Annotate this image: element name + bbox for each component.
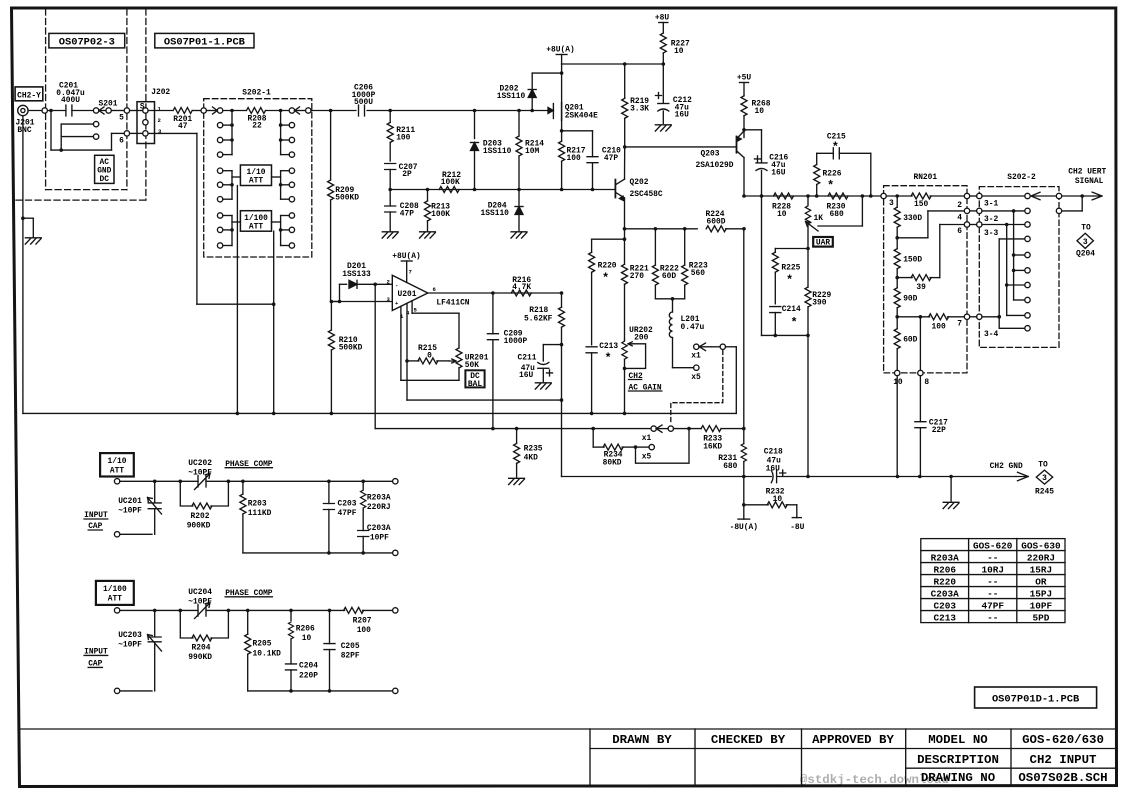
resistor R205 10.1KD	[245, 610, 281, 691]
top wire	[120, 609, 198, 611]
transistor Q203 2SA1029D	[696, 131, 744, 170]
svg-text:390: 390	[812, 299, 826, 308]
svg-text:3: 3	[1083, 238, 1088, 247]
resistor R207 100	[344, 607, 393, 634]
wire common to R233	[674, 428, 702, 430]
svg-text:0.47u: 0.47u	[681, 323, 705, 332]
capacitor C211 47u 16V	[518, 345, 562, 382]
wire R201 to S202-1	[192, 110, 201, 112]
resistor R226	[814, 153, 842, 196]
wire J201 to C201	[28, 110, 66, 112]
svg-text:x1: x1	[691, 352, 701, 361]
ground below C208	[382, 232, 398, 238]
left contacts 3-1 3-2 3-3 3-4	[977, 193, 999, 208]
svg-text:560: 560	[691, 269, 705, 278]
svg-text:R226: R226	[823, 169, 842, 178]
svg-text:C214: C214	[782, 305, 801, 314]
svg-text:--: --	[987, 576, 998, 587]
label box OS07P02-3	[49, 33, 125, 48]
svg-text:--: --	[987, 588, 998, 599]
svg-text:200: 200	[634, 333, 648, 342]
input cap lower terminal	[114, 532, 152, 537]
wire J202 pin3 down	[148, 133, 274, 304]
1/100 ATT box	[96, 581, 134, 605]
op-amp output pin 6	[428, 292, 562, 294]
svg-text:82PF: 82PF	[341, 652, 360, 661]
svg-text:R206: R206	[933, 564, 956, 575]
svg-text:@stdkj-tech.download: @stdkj-tech.download	[800, 773, 949, 787]
svg-text:BNC: BNC	[17, 126, 31, 135]
resistor R202 900KD	[180, 481, 228, 530]
wire to R225	[775, 249, 808, 253]
1/10 ATT box	[100, 453, 134, 476]
svg-text:47PF: 47PF	[981, 600, 1004, 611]
pin 10 wire down	[896, 376, 898, 477]
input terminal	[114, 479, 119, 484]
S201 lower contacts	[61, 121, 99, 150]
svg-text:R220: R220	[598, 261, 617, 270]
capacitor C204 220P	[286, 661, 319, 691]
wire R219 node to Q203 base	[625, 146, 737, 148]
svg-text:39: 39	[916, 283, 926, 292]
wiper wire to main line	[818, 196, 862, 226]
svg-text:8: 8	[924, 378, 929, 387]
capacitor C206 1000P 500V	[352, 84, 376, 117]
PCB name box OS07P01D-1.PCB	[975, 687, 1097, 708]
svg-text:1SS110: 1SS110	[483, 147, 512, 156]
svg-text:3-2: 3-2	[984, 215, 998, 224]
svg-text:1SS110: 1SS110	[497, 92, 526, 101]
variable capacitor VC204 ~10PF	[188, 588, 212, 619]
resistor R221 270	[622, 264, 650, 340]
CH2 GND line	[562, 462, 1029, 481]
svg-text:5PD: 5PD	[1032, 612, 1049, 623]
dashed boundary OS07P02-3 region	[46, 9, 127, 190]
shield wire J201 down	[22, 116, 24, 219]
resistor R217 100	[559, 141, 586, 189]
svg-text:~10PF: ~10PF	[118, 506, 142, 515]
title block frame	[19, 729, 1116, 786]
svg-text:150: 150	[914, 200, 928, 209]
+8V(A) rail	[562, 63, 664, 65]
right edge contacts	[1056, 193, 1061, 198]
Q201 drain up to rail	[561, 64, 563, 103]
svg-text:10: 10	[777, 210, 787, 219]
svg-text:R245: R245	[1035, 487, 1054, 496]
resistor R212 100K (in base line)	[439, 171, 461, 193]
svg-text:10: 10	[893, 378, 903, 387]
svg-text:3-3: 3-3	[984, 229, 998, 238]
resistor 150	[911, 193, 964, 209]
svg-text:*: *	[827, 179, 834, 193]
svg-text:+5U: +5U	[737, 74, 751, 83]
resistor R201 47	[173, 108, 192, 132]
svg-text:R203A: R203A	[367, 494, 391, 503]
svg-text:*: *	[602, 272, 609, 286]
svg-text:100: 100	[567, 154, 581, 163]
svg-text:R204: R204	[192, 643, 211, 652]
svg-text:2SK404E: 2SK404E	[565, 111, 598, 120]
resistor R228 10	[772, 193, 794, 219]
svg-text:C204: C204	[299, 661, 318, 670]
svg-text:16U: 16U	[766, 464, 780, 473]
dashed boundary OS07P01-1.PCB region	[16, 9, 146, 200]
svg-text:60D: 60D	[903, 335, 917, 344]
svg-text:UC202: UC202	[188, 459, 212, 468]
svg-text:U201: U201	[398, 290, 417, 299]
pin 4	[957, 208, 970, 222]
resistor R215 0	[407, 344, 449, 364]
wires RN201 to S202-2	[970, 195, 977, 197]
node 5 contact	[119, 108, 129, 123]
S202-2 dashed box	[979, 187, 1059, 348]
input terminal	[114, 608, 119, 613]
svg-text:22P: 22P	[932, 426, 946, 435]
input cap lower terminal	[114, 688, 152, 693]
wire S201 to contact 5	[111, 110, 124, 112]
resistor R223 560	[682, 229, 708, 299]
svg-text:4.7K: 4.7K	[512, 283, 531, 292]
resistor 60D	[894, 329, 917, 371]
ground on CH2 GND line	[943, 477, 959, 509]
resistor R213 100K	[425, 190, 451, 231]
svg-text:SIGNAL: SIGNAL	[1075, 177, 1104, 186]
svg-text:x5: x5	[642, 453, 652, 462]
svg-text:3-1: 3-1	[984, 199, 998, 208]
svg-text:3: 3	[1042, 474, 1047, 483]
svg-text:x1: x1	[642, 434, 652, 443]
svg-text:ATT: ATT	[110, 466, 124, 475]
resistor R218 5.62KF	[524, 293, 565, 400]
svg-text:ATT: ATT	[249, 222, 263, 231]
TO Q204 diamond	[1076, 224, 1095, 259]
capacitor C218 47u 16V	[764, 448, 786, 483]
svg-text:R203A: R203A	[931, 552, 960, 563]
svg-text:1/100: 1/100	[103, 585, 127, 594]
+8V supply top	[655, 14, 669, 33]
svg-text:UC204: UC204	[188, 588, 212, 597]
wire R218 node down to CH2 GND line	[561, 400, 563, 476]
svg-text:LF411CN: LF411CN	[436, 299, 469, 308]
svg-text:680: 680	[723, 462, 737, 471]
resistor R210 500KD	[328, 302, 362, 414]
switch pole contacts column	[1025, 193, 1030, 331]
svg-text:80KD: 80KD	[603, 459, 622, 468]
pin 6	[957, 222, 970, 236]
right column contacts	[289, 108, 294, 248]
svg-text:GOS-620/630: GOS-620/630	[1022, 733, 1104, 747]
svg-text:CH2-Y: CH2-Y	[17, 91, 41, 100]
resistor R234 80KD	[593, 429, 635, 468]
svg-text:47P: 47P	[604, 154, 618, 163]
svg-text:C213: C213	[933, 612, 956, 623]
svg-text:DC: DC	[100, 175, 110, 184]
svg-text:x5: x5	[691, 373, 701, 382]
svg-text:C213: C213	[599, 342, 618, 351]
svg-text:--: --	[987, 552, 998, 563]
svg-text:10: 10	[773, 495, 783, 504]
svg-text:500KD: 500KD	[335, 193, 359, 202]
svg-text:2: 2	[957, 201, 962, 210]
connector J202	[137, 88, 170, 144]
capacitor C203A 10PF	[358, 524, 391, 553]
wire 1/10 ATT down	[236, 186, 238, 414]
resistor R211 100	[387, 111, 415, 162]
svg-text:Q203: Q203	[701, 149, 720, 158]
svg-text:150D: 150D	[903, 255, 922, 264]
svg-text:15PJ: 15PJ	[1030, 588, 1053, 599]
svg-text:5: 5	[119, 114, 124, 123]
capacitor C215	[817, 132, 871, 196]
svg-text:~10PF: ~10PF	[118, 641, 142, 650]
svg-text:100: 100	[931, 322, 945, 331]
transistor Q201 2SK404E	[548, 103, 598, 120]
diode D204 1SS110	[481, 190, 524, 231]
variant table	[921, 539, 1065, 623]
internal bus 1	[1012, 211, 1025, 300]
resistor R227 10	[660, 33, 690, 64]
variable capacitor VC203 ~10PF	[118, 610, 161, 691]
variable capacitor VC202 ~10PF	[188, 459, 212, 490]
svg-text:220P: 220P	[299, 671, 318, 680]
ground below R235	[509, 478, 525, 484]
svg-text:100: 100	[396, 133, 410, 142]
svg-text:90D: 90D	[903, 294, 917, 303]
svg-text:OR: OR	[1035, 576, 1047, 587]
svg-text:3-4: 3-4	[984, 330, 998, 339]
svg-text:RN201: RN201	[913, 173, 937, 182]
svg-text:R205: R205	[253, 640, 272, 649]
svg-text:-: -	[395, 282, 398, 289]
svg-text:CH2 GND: CH2 GND	[990, 462, 1023, 471]
pin 2	[957, 193, 970, 210]
svg-text:100: 100	[357, 626, 371, 635]
resistor 90D	[894, 288, 917, 329]
resistor R230 680	[827, 193, 849, 219]
pin 4 wire	[407, 303, 562, 400]
capacitor C212 47u 16V	[656, 64, 693, 124]
svg-text:ATT: ATT	[249, 177, 263, 186]
svg-text:990KD: 990KD	[188, 653, 212, 662]
svg-text:R206: R206	[296, 624, 315, 633]
svg-text:1: 1	[158, 105, 162, 112]
svg-text:10PF: 10PF	[1030, 600, 1053, 611]
wire C206 to Q201 gate	[367, 110, 549, 112]
CH2 AC GAIN label	[629, 372, 662, 393]
svg-text:3: 3	[158, 128, 162, 135]
pin 7	[957, 314, 970, 328]
svg-text:C203: C203	[338, 500, 357, 509]
title block text	[612, 733, 1107, 785]
resistor R216 4.7K	[511, 276, 531, 296]
svg-text:+8U(A): +8U(A)	[392, 252, 420, 261]
svg-text:10.1KD: 10.1KD	[253, 649, 282, 658]
x5 loop to common side	[636, 429, 690, 464]
svg-text:330D: 330D	[903, 214, 922, 223]
capacitor C203 47PF	[323, 481, 356, 553]
svg-text:*: *	[791, 316, 798, 330]
C216 top wire	[744, 130, 762, 163]
wire pin3 to chain	[886, 195, 912, 197]
+8V(A) supply op-amp	[392, 252, 420, 282]
potentiometer VR201 50K	[449, 348, 489, 380]
svg-text:BAL: BAL	[468, 380, 482, 389]
svg-text:500KD: 500KD	[339, 343, 363, 352]
svg-text:47P: 47P	[400, 210, 414, 219]
label box CH2-Y	[15, 87, 43, 101]
svg-text:*: *	[832, 141, 839, 155]
svg-text:111KD: 111KD	[248, 509, 272, 518]
Q203 collector down	[743, 158, 745, 197]
svg-text:ATT: ATT	[108, 595, 122, 604]
svg-text:0: 0	[427, 352, 432, 361]
svg-text:10PF: 10PF	[370, 534, 389, 543]
capacitor C210 47P	[587, 146, 621, 189]
svg-text:R202: R202	[191, 512, 210, 521]
resistor R206 10	[288, 610, 315, 664]
main mid line to RN201	[744, 195, 881, 197]
svg-text:2P: 2P	[402, 170, 412, 179]
wire 1/100 ATT down	[273, 231, 275, 413]
svg-text:2: 2	[158, 117, 162, 124]
pin 1 wire	[401, 306, 459, 380]
capacitor C216 47u 16V	[755, 153, 789, 335]
svg-text:C203A: C203A	[367, 524, 391, 533]
svg-text:10RJ: 10RJ	[981, 564, 1004, 575]
svg-text:16U: 16U	[519, 371, 533, 380]
pin 8 wire down with C217	[915, 376, 948, 477]
svg-text:C203A: C203A	[931, 588, 960, 599]
svg-text:C211: C211	[518, 354, 537, 363]
wire J202 pin1 to R201	[148, 110, 172, 112]
PHASE COMP label	[225, 589, 273, 598]
svg-text:2SA1029D: 2SA1029D	[696, 161, 734, 170]
resistor R235 4KD	[514, 429, 543, 477]
resistor R220	[589, 252, 617, 345]
right stubs and bus	[279, 109, 289, 246]
svg-text:900KD: 900KD	[187, 522, 211, 531]
svg-text:UAR: UAR	[816, 239, 830, 248]
svg-text:UC201: UC201	[118, 497, 142, 506]
capacitor C207 2P	[385, 163, 418, 179]
+5V supply	[737, 74, 751, 96]
potentiometer VAR 1K	[805, 196, 823, 249]
svg-text:22: 22	[252, 122, 262, 131]
label box OS07P01-1.PCB	[155, 33, 254, 48]
capacitor C213	[586, 342, 618, 413]
svg-text:CH2 UERT: CH2 UERT	[1068, 168, 1106, 177]
svg-text:CH2 INPUT: CH2 INPUT	[1030, 753, 1097, 767]
svg-text:3.3K: 3.3K	[630, 104, 649, 113]
svg-text:10: 10	[302, 634, 312, 643]
svg-text:R235: R235	[524, 444, 543, 453]
potentiometer VR202 200	[622, 326, 653, 369]
R222/R223 bottom join	[655, 297, 684, 301]
CH2 VERT SIGNAL arrow	[1092, 192, 1102, 200]
svg-text:10: 10	[674, 47, 684, 56]
svg-text:--: --	[987, 612, 998, 623]
svg-text:600D: 600D	[707, 218, 726, 227]
resistor R233 16KD	[701, 426, 744, 452]
diode D203 1SS110	[471, 111, 512, 190]
ground at J201 shield	[21, 216, 41, 244]
svg-text:270: 270	[630, 272, 644, 281]
wire -input	[375, 283, 392, 285]
left stubs and bus	[223, 109, 234, 246]
svg-text:C205: C205	[341, 642, 360, 651]
resistor R232 10	[744, 487, 797, 517]
internal bus 2	[1005, 225, 1025, 316]
bottom wire	[248, 688, 398, 693]
svg-text:500U: 500U	[354, 98, 373, 107]
resistor R229 390	[805, 249, 832, 336]
svg-text:+8U(A): +8U(A)	[546, 46, 574, 55]
INPUT CAP label	[84, 511, 108, 531]
dashed gang link	[671, 351, 723, 425]
svg-text:3: 3	[889, 199, 894, 208]
svg-text:6: 6	[119, 137, 124, 146]
resistor 150D	[894, 249, 922, 288]
svg-text:15RJ: 15RJ	[1030, 564, 1053, 575]
-8V(A) supply	[730, 519, 758, 532]
svg-text:GOS-620: GOS-620	[973, 540, 1013, 551]
svg-text:MODEL NO: MODEL NO	[928, 733, 988, 747]
exit wiper arrow and contact	[295, 107, 306, 114]
svg-text:GOS-630: GOS-630	[1021, 540, 1061, 551]
Q203 emitter up	[743, 130, 745, 131]
resistor 100 tap to pin 7	[897, 314, 964, 332]
svg-text:*: *	[786, 274, 793, 288]
svg-text:680: 680	[830, 210, 844, 219]
svg-text:CHECKED BY: CHECKED BY	[711, 733, 786, 747]
svg-text:OS07S02B.SCH: OS07S02B.SCH	[1018, 771, 1107, 785]
svg-text:UC203: UC203	[118, 631, 142, 640]
wire +input	[331, 301, 392, 303]
svg-text:*: *	[605, 352, 612, 366]
wire main line S202-1 to C206	[311, 110, 356, 112]
ground below R213	[420, 232, 436, 238]
pin 8	[918, 317, 930, 387]
wiper arrow top row	[1031, 192, 1040, 199]
Q202 emitter down	[624, 198, 626, 264]
resistor R224 600D	[706, 210, 745, 232]
output wires	[1062, 195, 1094, 197]
ground below C212	[655, 125, 671, 131]
ground below C211	[535, 383, 551, 389]
PHASE COMP label	[225, 460, 273, 469]
VR202 bottom to bus	[624, 368, 626, 413]
svg-text:DESCRIPTION: DESCRIPTION	[917, 753, 999, 767]
upper x1/x5 switch	[673, 343, 726, 382]
wire C201 to S201	[72, 110, 94, 112]
svg-text:APPROVED BY: APPROVED BY	[812, 733, 894, 747]
1/10 ATT box	[232, 165, 281, 186]
svg-text:10: 10	[755, 107, 765, 116]
svg-text:S202-2: S202-2	[1007, 173, 1036, 182]
pin 10	[893, 370, 903, 387]
svg-text:6: 6	[433, 286, 437, 293]
row wires into switch	[982, 195, 1025, 197]
svg-text:~10PF: ~10PF	[188, 598, 212, 607]
-8V supply	[790, 518, 804, 532]
svg-text:220RJ: 220RJ	[1027, 552, 1055, 563]
svg-text:R220: R220	[933, 576, 956, 587]
switch S201	[93, 99, 117, 114]
capacitor C201	[56, 82, 85, 116]
AC GND DC box	[95, 155, 114, 184]
svg-text:5.62KF: 5.62KF	[524, 314, 553, 323]
common wire to bus corner	[726, 347, 737, 414]
